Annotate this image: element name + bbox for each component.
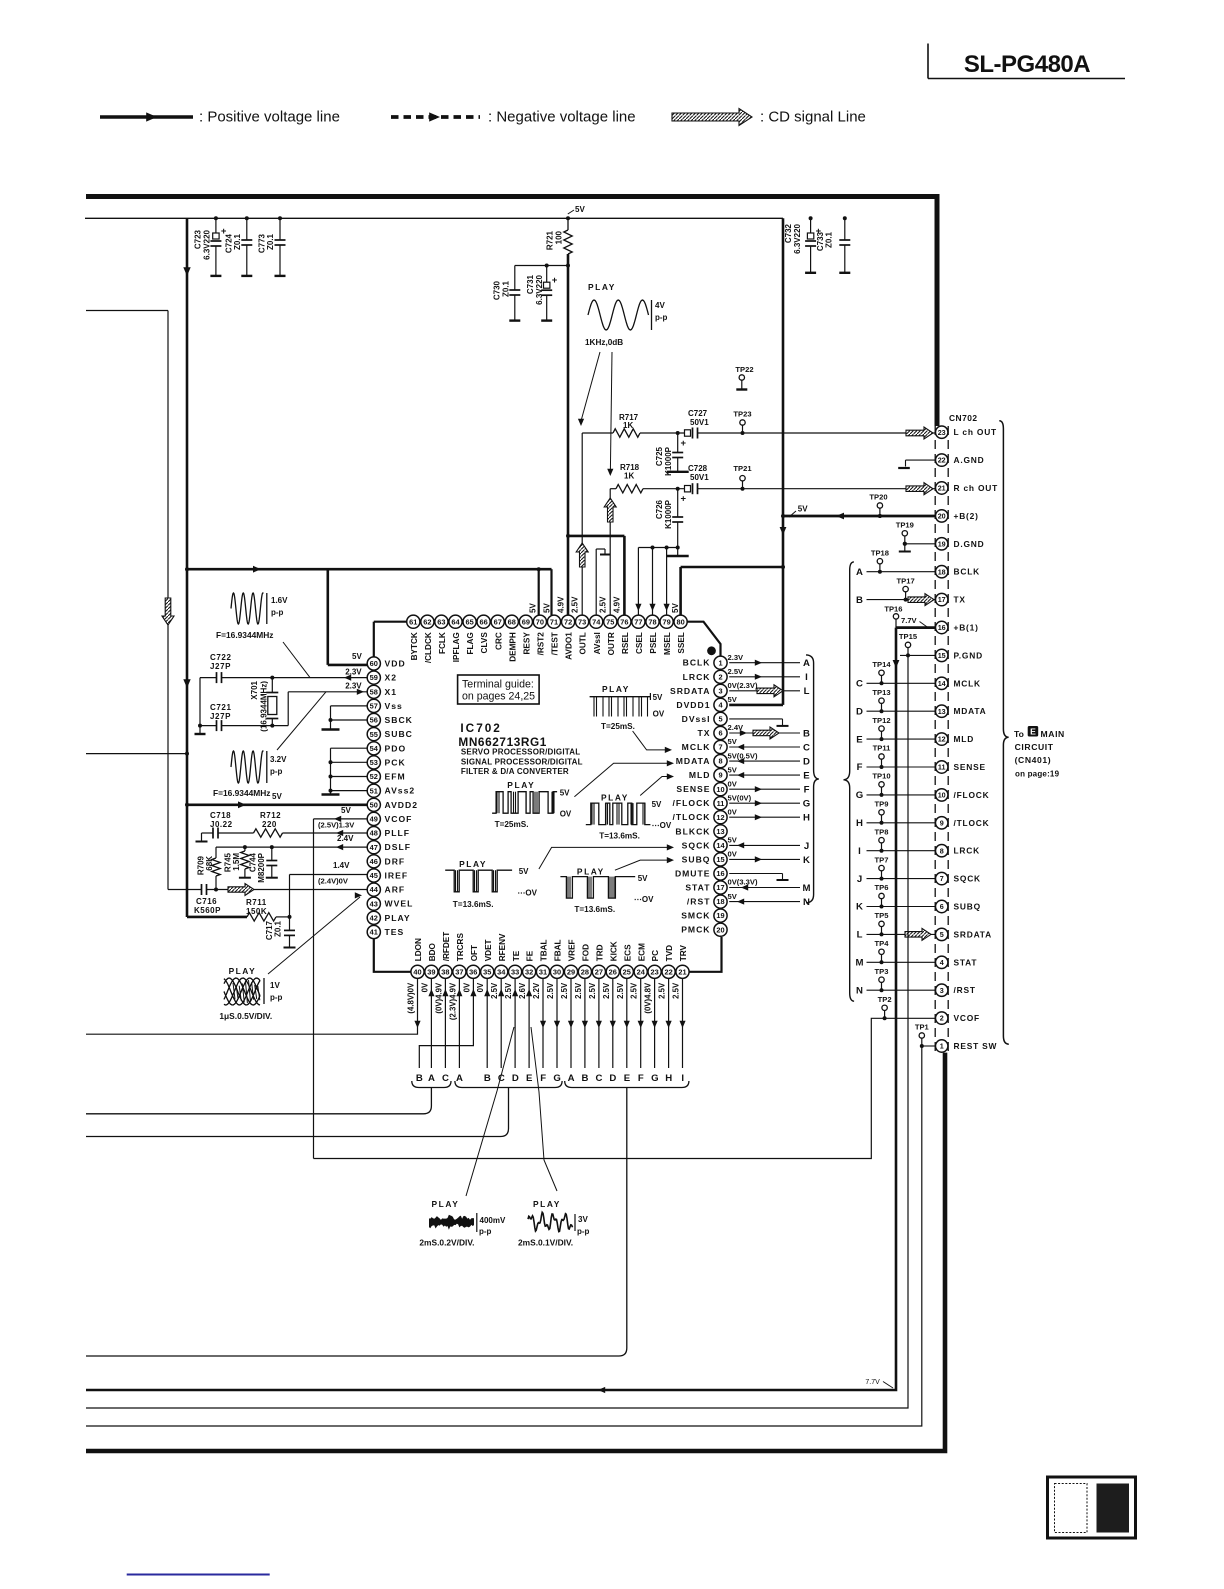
svg-text:L: L: [804, 686, 810, 697]
svg-text:11: 11: [717, 799, 725, 808]
wire pin 32 down to letter: [528, 978, 530, 1068]
svg-text:(2.3V)4.9V: (2.3V)4.9V: [448, 982, 457, 1020]
svg-text:MSEL: MSEL: [663, 632, 672, 655]
IC702 pin 2 LRCK: [714, 670, 727, 683]
IC702 pin 64 IPFLAG: [449, 615, 462, 628]
wire R-ch line to CN702 pin 21: [643, 488, 685, 490]
legend negative voltage line symbol: [391, 115, 480, 119]
svg-text:5V: 5V: [341, 806, 351, 815]
svg-text:16: 16: [716, 869, 724, 878]
wire IC pin 3 to node letter L: [729, 690, 800, 692]
capacitor C773: [279, 218, 281, 240]
IC702 pin 52 EFM: [367, 770, 380, 783]
svg-text:C: C: [442, 1073, 449, 1084]
svg-text:C725: C725: [655, 446, 664, 466]
IC702 pin 25 ECS: [620, 965, 633, 978]
svg-text:1: 1: [940, 1042, 944, 1051]
IC702 pin 55 SUBC: [367, 728, 380, 741]
wire pin 23 down to letter: [654, 978, 656, 1068]
svg-text:2.5V: 2.5V: [630, 982, 639, 999]
svg-text:CRC: CRC: [494, 632, 503, 650]
svg-text:IPFLAG: IPFLAG: [452, 632, 461, 662]
wire pin 24 down to letter: [640, 978, 642, 1068]
svg-text:FBAL: FBAL: [554, 939, 563, 961]
svg-text:80: 80: [676, 617, 684, 626]
IC702 pin 47 DSLF: [367, 841, 380, 854]
IC702 pin 17 STAT: [714, 881, 727, 894]
svg-text:STAT: STAT: [954, 957, 978, 967]
svg-text:TP4: TP4: [875, 939, 890, 948]
svg-text:M: M: [856, 958, 864, 969]
svg-text:67: 67: [494, 617, 502, 626]
svg-text:23: 23: [650, 967, 658, 976]
svg-text:F: F: [857, 762, 863, 773]
svg-text:/RST: /RST: [954, 985, 976, 995]
svg-text:68: 68: [508, 617, 516, 626]
svg-text:TP2: TP2: [878, 995, 892, 1004]
IC702 pin 19 SMCK: [714, 909, 727, 922]
IC702 pin 32 FE: [523, 965, 536, 978]
svg-text:(4.8V)0V: (4.8V)0V: [407, 982, 416, 1014]
svg-text:18: 18: [716, 897, 724, 906]
waveform crystal 3.2V p-p: [231, 751, 263, 783]
wire 5V vertical to AVDD1 pin 72: [567, 254, 570, 615]
svg-text:Z0.1: Z0.1: [266, 233, 275, 250]
svg-text:0V: 0V: [728, 808, 738, 817]
svg-text:MAIN: MAIN: [1041, 729, 1065, 739]
svg-text:56: 56: [370, 716, 378, 725]
svg-text:4.9V: 4.9V: [557, 596, 566, 613]
svg-text:2.5V: 2.5V: [571, 596, 580, 613]
svg-text:2.5V: 2.5V: [616, 982, 625, 999]
wire VCOF pin 49: [314, 818, 368, 820]
svg-text:TE: TE: [512, 950, 521, 961]
svg-text:TP21: TP21: [733, 464, 752, 473]
connector CN702 pin 17 TX: [936, 593, 948, 605]
testpoint TP5: [879, 921, 884, 926]
svg-text:F: F: [804, 785, 810, 796]
svg-text:SBCK: SBCK: [385, 715, 413, 725]
IC702 pin 10 SENSE: [714, 783, 727, 796]
svg-text:OFT: OFT: [470, 945, 479, 961]
IC702 pin 77 CSEL: [632, 615, 645, 628]
svg-text:PC: PC: [651, 950, 660, 961]
crystal X701: [270, 676, 274, 680]
svg-text:5V: 5V: [519, 867, 529, 876]
ground DMUTE pin 16: [729, 873, 782, 875]
svg-text:E: E: [803, 771, 810, 782]
ground DVssI pin 5: [729, 718, 782, 720]
connector CN702 pin 13 MDATA: [936, 705, 948, 717]
svg-text:64: 64: [451, 617, 460, 626]
svg-text:23: 23: [938, 428, 946, 437]
wire X1 to pin 58: [287, 692, 289, 726]
svg-text:PLAY: PLAY: [432, 1199, 460, 1209]
svg-text:3.2V: 3.2V: [270, 755, 287, 764]
svg-text:2: 2: [718, 672, 722, 681]
svg-text:G: G: [553, 1073, 560, 1084]
svg-text:BCLK: BCLK: [954, 567, 980, 577]
svg-text:17: 17: [938, 595, 946, 604]
svg-text:37: 37: [455, 967, 463, 976]
svg-text:0V(3.3V): 0V(3.3V): [728, 878, 758, 887]
svg-text:T=13.6mS.: T=13.6mS.: [574, 905, 615, 914]
capacitor C723: [215, 218, 217, 233]
svg-text:I: I: [858, 846, 861, 857]
IC702 pin 24 ECM: [634, 965, 647, 978]
svg-text:100: 100: [555, 230, 564, 244]
svg-text:0V: 0V: [420, 982, 429, 992]
svg-text:C722: C722: [210, 653, 232, 662]
svg-text:WVEL: WVEL: [385, 899, 414, 909]
svg-text:(0V)4.9V: (0V)4.9V: [434, 982, 443, 1014]
svg-text:150K: 150K: [246, 907, 267, 916]
svg-text:CSEL: CSEL: [635, 632, 644, 654]
svg-text:74: 74: [592, 617, 601, 626]
svg-text:C716: C716: [196, 897, 217, 906]
svg-text:21: 21: [678, 967, 686, 976]
svg-text:TP1: TP1: [915, 1023, 930, 1032]
wire pin 34 down to letter: [500, 978, 502, 1068]
svg-text:40: 40: [413, 967, 421, 976]
svg-text:Terminal guide:: Terminal guide:: [462, 679, 534, 691]
svg-text:8: 8: [940, 846, 944, 855]
annotation line waveform to MCLK: [633, 731, 666, 750]
svg-text:54: 54: [370, 744, 379, 753]
svg-text:LDON: LDON: [414, 938, 423, 961]
svg-text:p-p: p-p: [577, 1227, 590, 1236]
svg-text:PMCK: PMCK: [681, 925, 710, 935]
svg-text:7.7V: 7.7V: [901, 616, 918, 625]
svg-text:K1000P: K1000P: [664, 499, 673, 529]
capacitor C731: [546, 266, 548, 283]
connector CN702 pin 7 SQCK: [936, 872, 948, 884]
capacitor C725: [676, 431, 680, 435]
bracket group 1 (pins 40-38): [412, 1081, 451, 1088]
svg-text:22: 22: [664, 967, 672, 976]
svg-text:C: C: [856, 679, 863, 690]
capacitor C718: [202, 832, 214, 834]
IC702 pin 4 DVDD1: [714, 698, 727, 711]
wire IC pin 15 to node letter K: [729, 858, 800, 860]
svg-text:2.4V: 2.4V: [728, 723, 745, 732]
IC702 pin 3 SRDATA: [714, 684, 727, 697]
svg-text:22: 22: [938, 456, 946, 465]
svg-text:5V: 5V: [728, 695, 738, 704]
svg-text:B: B: [416, 1073, 423, 1084]
svg-text:RSEL: RSEL: [621, 632, 630, 654]
resistor R745: [244, 847, 246, 851]
svg-text:TRD: TRD: [596, 944, 605, 961]
svg-text:6.3V220: 6.3V220: [793, 223, 802, 253]
svg-text:/CLDCK: /CLDCK: [424, 632, 433, 663]
svg-text:51: 51: [370, 786, 378, 795]
svg-text:L ch OUT: L ch OUT: [954, 427, 998, 437]
svg-text:C721: C721: [210, 703, 232, 712]
svg-text:F=16.9344MHz: F=16.9344MHz: [213, 788, 271, 798]
svg-text:R ch OUT: R ch OUT: [954, 483, 999, 493]
wire IC pin 8 to node letter D: [729, 760, 800, 762]
testpoint TP1: [919, 1033, 924, 1038]
wire IC pin 2 to node letter I: [729, 676, 800, 678]
IC702 pin 43 WVEL: [367, 897, 380, 910]
IC702 pin 31 TBAL: [536, 965, 549, 978]
svg-text:/TLOCK: /TLOCK: [673, 812, 711, 822]
testpoint TP8: [879, 838, 884, 843]
svg-text:5V(0V): 5V(0V): [728, 793, 752, 802]
wire IC pin 10 to node letter F: [729, 788, 800, 790]
connector CN702 pin 4 STAT: [936, 956, 948, 968]
connector CN702 pin 6 SUBQ: [936, 900, 948, 912]
svg-text:D: D: [512, 1073, 519, 1084]
svg-text:5: 5: [940, 930, 944, 939]
svg-text:3V: 3V: [578, 1215, 588, 1224]
svg-text:2.5V: 2.5V: [588, 982, 597, 999]
svg-text:TES: TES: [385, 927, 405, 937]
testpoint TP18: [877, 559, 882, 564]
IC702 pin 42 PLAY: [367, 911, 380, 924]
svg-text:PCK: PCK: [385, 757, 406, 767]
svg-text:16: 16: [938, 623, 946, 632]
svg-text:SQCK: SQCK: [682, 840, 711, 850]
svg-text:TP7: TP7: [875, 855, 889, 864]
wire heavy top bus from left edge to CN702 pin 23: [86, 194, 937, 199]
testpoint TP4: [879, 949, 884, 954]
svg-text:A: A: [428, 1073, 435, 1084]
IC702 pin 75 OUTR: [604, 615, 617, 628]
wire to pin 71 /TEST: [550, 569, 552, 615]
svg-text:2.5V: 2.5V: [546, 982, 555, 999]
testpoint TP15: [905, 642, 910, 647]
svg-text:58: 58: [370, 687, 378, 696]
wire pin 33 down to letter: [514, 978, 516, 1068]
svg-text:TP6: TP6: [875, 883, 889, 892]
wire OUTL pin 73 riser: [581, 433, 583, 615]
svg-text:PLAY: PLAY: [507, 780, 535, 790]
IC702 outline top-left corner: [0, 0, 1, 1]
IC702 pin 71 /TEST: [547, 615, 560, 628]
wire pin 31 down to letter: [542, 978, 544, 1068]
svg-text:53: 53: [370, 758, 378, 767]
testpoint TP10: [879, 782, 884, 787]
connector CN702 pin 2 VCOF: [936, 1012, 948, 1024]
svg-text:31: 31: [539, 967, 547, 976]
svg-text:B: B: [856, 595, 863, 606]
svg-text:DEMPH: DEMPH: [508, 632, 517, 662]
IC702 pin 50 AVDD2: [367, 798, 380, 811]
svg-text:15: 15: [716, 855, 724, 864]
wire ARF pin 44 line: [168, 889, 202, 891]
wire pin 38 down to letter: [444, 978, 446, 1068]
svg-text:R721: R721: [546, 230, 555, 250]
svg-text:9: 9: [718, 771, 722, 780]
svg-text:50V1: 50V1: [690, 418, 709, 427]
svg-text:66: 66: [479, 617, 487, 626]
svg-text:26: 26: [609, 967, 617, 976]
svg-text:G: G: [856, 790, 863, 801]
svg-text:A: A: [856, 567, 863, 578]
svg-text:5V: 5V: [543, 603, 552, 613]
testpoint TP2: [882, 1005, 887, 1010]
svg-text:T=25mS.: T=25mS.: [495, 820, 529, 829]
svg-text:AVssI: AVssI: [593, 632, 602, 654]
svg-text:(2.4V)0V: (2.4V)0V: [318, 877, 349, 886]
capacitor C726: [676, 487, 680, 491]
wire IC pin 11 to node letter G: [729, 802, 800, 804]
svg-text:62: 62: [423, 617, 431, 626]
svg-text:C728: C728: [688, 464, 708, 473]
svg-text:220: 220: [262, 820, 277, 829]
svg-text:5V: 5V: [728, 765, 738, 774]
svg-text:STAT: STAT: [685, 883, 710, 893]
svg-text:H: H: [856, 818, 863, 829]
svg-text:LRCK: LRCK: [683, 672, 711, 682]
svg-text:TP15: TP15: [899, 632, 918, 641]
testpoint TP9: [879, 810, 884, 815]
svg-text:N: N: [856, 985, 863, 996]
svg-text:TP14: TP14: [872, 660, 891, 669]
wire to pin 70 /RST2: [538, 569, 540, 615]
svg-text:TP22: TP22: [735, 365, 753, 374]
svg-text:4.9V: 4.9V: [613, 596, 622, 613]
capacitor C722: [200, 677, 217, 679]
IC702 pin 68 DEMPH: [505, 615, 518, 628]
svg-text:/RFDET: /RFDET: [442, 932, 451, 962]
IC702 pin 61 BYTCK: [407, 615, 420, 628]
svg-text:PLAY: PLAY: [588, 282, 616, 292]
connector CN702 pin 23 L ch OUT: [936, 426, 948, 438]
svg-text:SUBQ: SUBQ: [954, 902, 981, 912]
svg-text:VDD: VDD: [385, 659, 406, 669]
IC702 pin 72 AVDO1: [562, 615, 575, 628]
svg-text:2.3V: 2.3V: [728, 653, 745, 662]
svg-text:5V: 5V: [798, 505, 808, 514]
IC702 pin 63 FCLK: [435, 615, 448, 628]
svg-text:VDET: VDET: [484, 939, 493, 961]
svg-text:72: 72: [564, 617, 572, 626]
connector CN702 pin 1 REST SW: [936, 1040, 948, 1052]
svg-text:70: 70: [536, 617, 544, 626]
bracket group 3 (pins 29-21): [565, 1081, 689, 1088]
svg-text:5V: 5V: [352, 652, 362, 661]
connector CN702 pin 12 MLD: [936, 733, 948, 745]
svg-text:TP17: TP17: [897, 576, 915, 585]
wire 7.7V +B(1) to CN702 pin 16: [896, 626, 936, 629]
svg-text:65: 65: [465, 617, 473, 626]
svg-text:OUTR: OUTR: [607, 632, 616, 655]
connector CN702 pin 19 D.GND: [936, 538, 948, 550]
IC702 pin 56 SBCK: [367, 713, 380, 726]
svg-text:D.GND: D.GND: [954, 539, 985, 549]
svg-text:C730: C730: [493, 280, 502, 300]
svg-text:75: 75: [606, 617, 614, 626]
svg-text:B: B: [582, 1073, 589, 1084]
svg-text:+: +: [681, 494, 687, 505]
svg-text:G: G: [651, 1073, 658, 1084]
svg-text:69: 69: [522, 617, 530, 626]
svg-text:TBAL: TBAL: [540, 939, 549, 961]
wire pin 30 down to letter: [556, 978, 558, 1068]
annotation line waveform to SUBQ: [615, 860, 668, 870]
svg-text:C723: C723: [194, 229, 203, 249]
svg-text:7.7V: 7.7V: [865, 1379, 880, 1386]
svg-text:FCLK: FCLK: [438, 632, 447, 654]
svg-text:/FLOCK: /FLOCK: [954, 790, 990, 800]
ground A.GND pin 22: [906, 459, 936, 461]
svg-text:12: 12: [716, 813, 724, 822]
svg-text:1.5M: 1.5M: [232, 853, 241, 871]
svg-text:SQCK: SQCK: [954, 874, 981, 884]
wire 5V rail to IC (y=569): [187, 568, 552, 571]
wire IC pin 17 to node letter M: [729, 887, 800, 889]
IC702 pin 9 MLD: [714, 769, 727, 782]
connector CN702 pin 10 /FLOCK: [936, 789, 948, 801]
testpoint TP12: [879, 726, 884, 731]
svg-text:TX: TX: [698, 728, 711, 738]
wire IC pin 14 to node letter J: [729, 844, 800, 846]
connector CN702 pin 3 /RST: [936, 984, 948, 996]
svg-text:M8200P: M8200P: [257, 852, 266, 882]
svg-text:: Negative voltage line: : Negative voltage line: [488, 109, 636, 126]
svg-text:p-p: p-p: [270, 767, 283, 776]
svg-text:Z0.1: Z0.1: [502, 280, 511, 297]
IC702 pin 26 KICK: [606, 965, 619, 978]
svg-text:MLD: MLD: [689, 770, 711, 780]
svg-text:+: +: [552, 275, 558, 286]
svg-text:EFM: EFM: [385, 772, 406, 782]
svg-text:TRCRS: TRCRS: [456, 933, 465, 962]
svg-text:T=13.6mS.: T=13.6mS.: [599, 832, 640, 841]
svg-text:A.GND: A.GND: [954, 455, 985, 465]
svg-text:20: 20: [938, 512, 946, 521]
wire DVDD1 pin4 branch: [729, 704, 783, 707]
svg-text:J0.22: J0.22: [210, 820, 233, 829]
svg-text:1.4V: 1.4V: [333, 861, 350, 870]
svg-text:2.5V: 2.5V: [728, 667, 745, 676]
svg-text:K: K: [803, 855, 810, 866]
svg-text:p-p: p-p: [270, 993, 283, 1002]
annotation line 3.2V waveform to X1: [277, 692, 326, 750]
svg-text:K560P: K560P: [194, 906, 221, 915]
svg-text:p-p: p-p: [271, 608, 284, 617]
svg-text:1KHz,0dB: 1KHz,0dB: [585, 338, 623, 347]
svg-text:ECS: ECS: [623, 944, 632, 961]
svg-text:5V: 5V: [560, 789, 570, 798]
wire pin 25 down to letter: [626, 978, 628, 1068]
svg-text:13: 13: [716, 827, 724, 836]
svg-text:CLVS: CLVS: [480, 632, 489, 654]
svg-text:5V: 5V: [728, 892, 738, 901]
svg-text:2.3V: 2.3V: [345, 668, 362, 677]
svg-text:6: 6: [718, 729, 722, 738]
svg-text:⋯OV: ⋯OV: [517, 889, 537, 898]
svg-text:(CN401): (CN401): [1015, 755, 1052, 765]
IC702 pin 45 IREF: [367, 869, 380, 882]
svg-text:BYTCK: BYTCK: [410, 632, 419, 660]
svg-text:MCLK: MCLK: [954, 678, 981, 688]
svg-text:A: A: [456, 1073, 463, 1084]
svg-text:1V: 1V: [270, 981, 280, 990]
IC702 pin 18 /RST: [714, 895, 727, 908]
svg-text:68K: 68K: [205, 856, 214, 871]
ground PDO PCK EFM AVss2 pins 54-51: [331, 747, 368, 749]
svg-text:BCLK: BCLK: [683, 658, 711, 668]
IC702 pin 49 VCOF: [367, 812, 380, 825]
capacitor C721: [200, 725, 217, 727]
svg-text:G: G: [803, 799, 810, 810]
connector CN702 pin 22 A.GND: [936, 454, 948, 466]
svg-text:TP11: TP11: [873, 744, 892, 753]
